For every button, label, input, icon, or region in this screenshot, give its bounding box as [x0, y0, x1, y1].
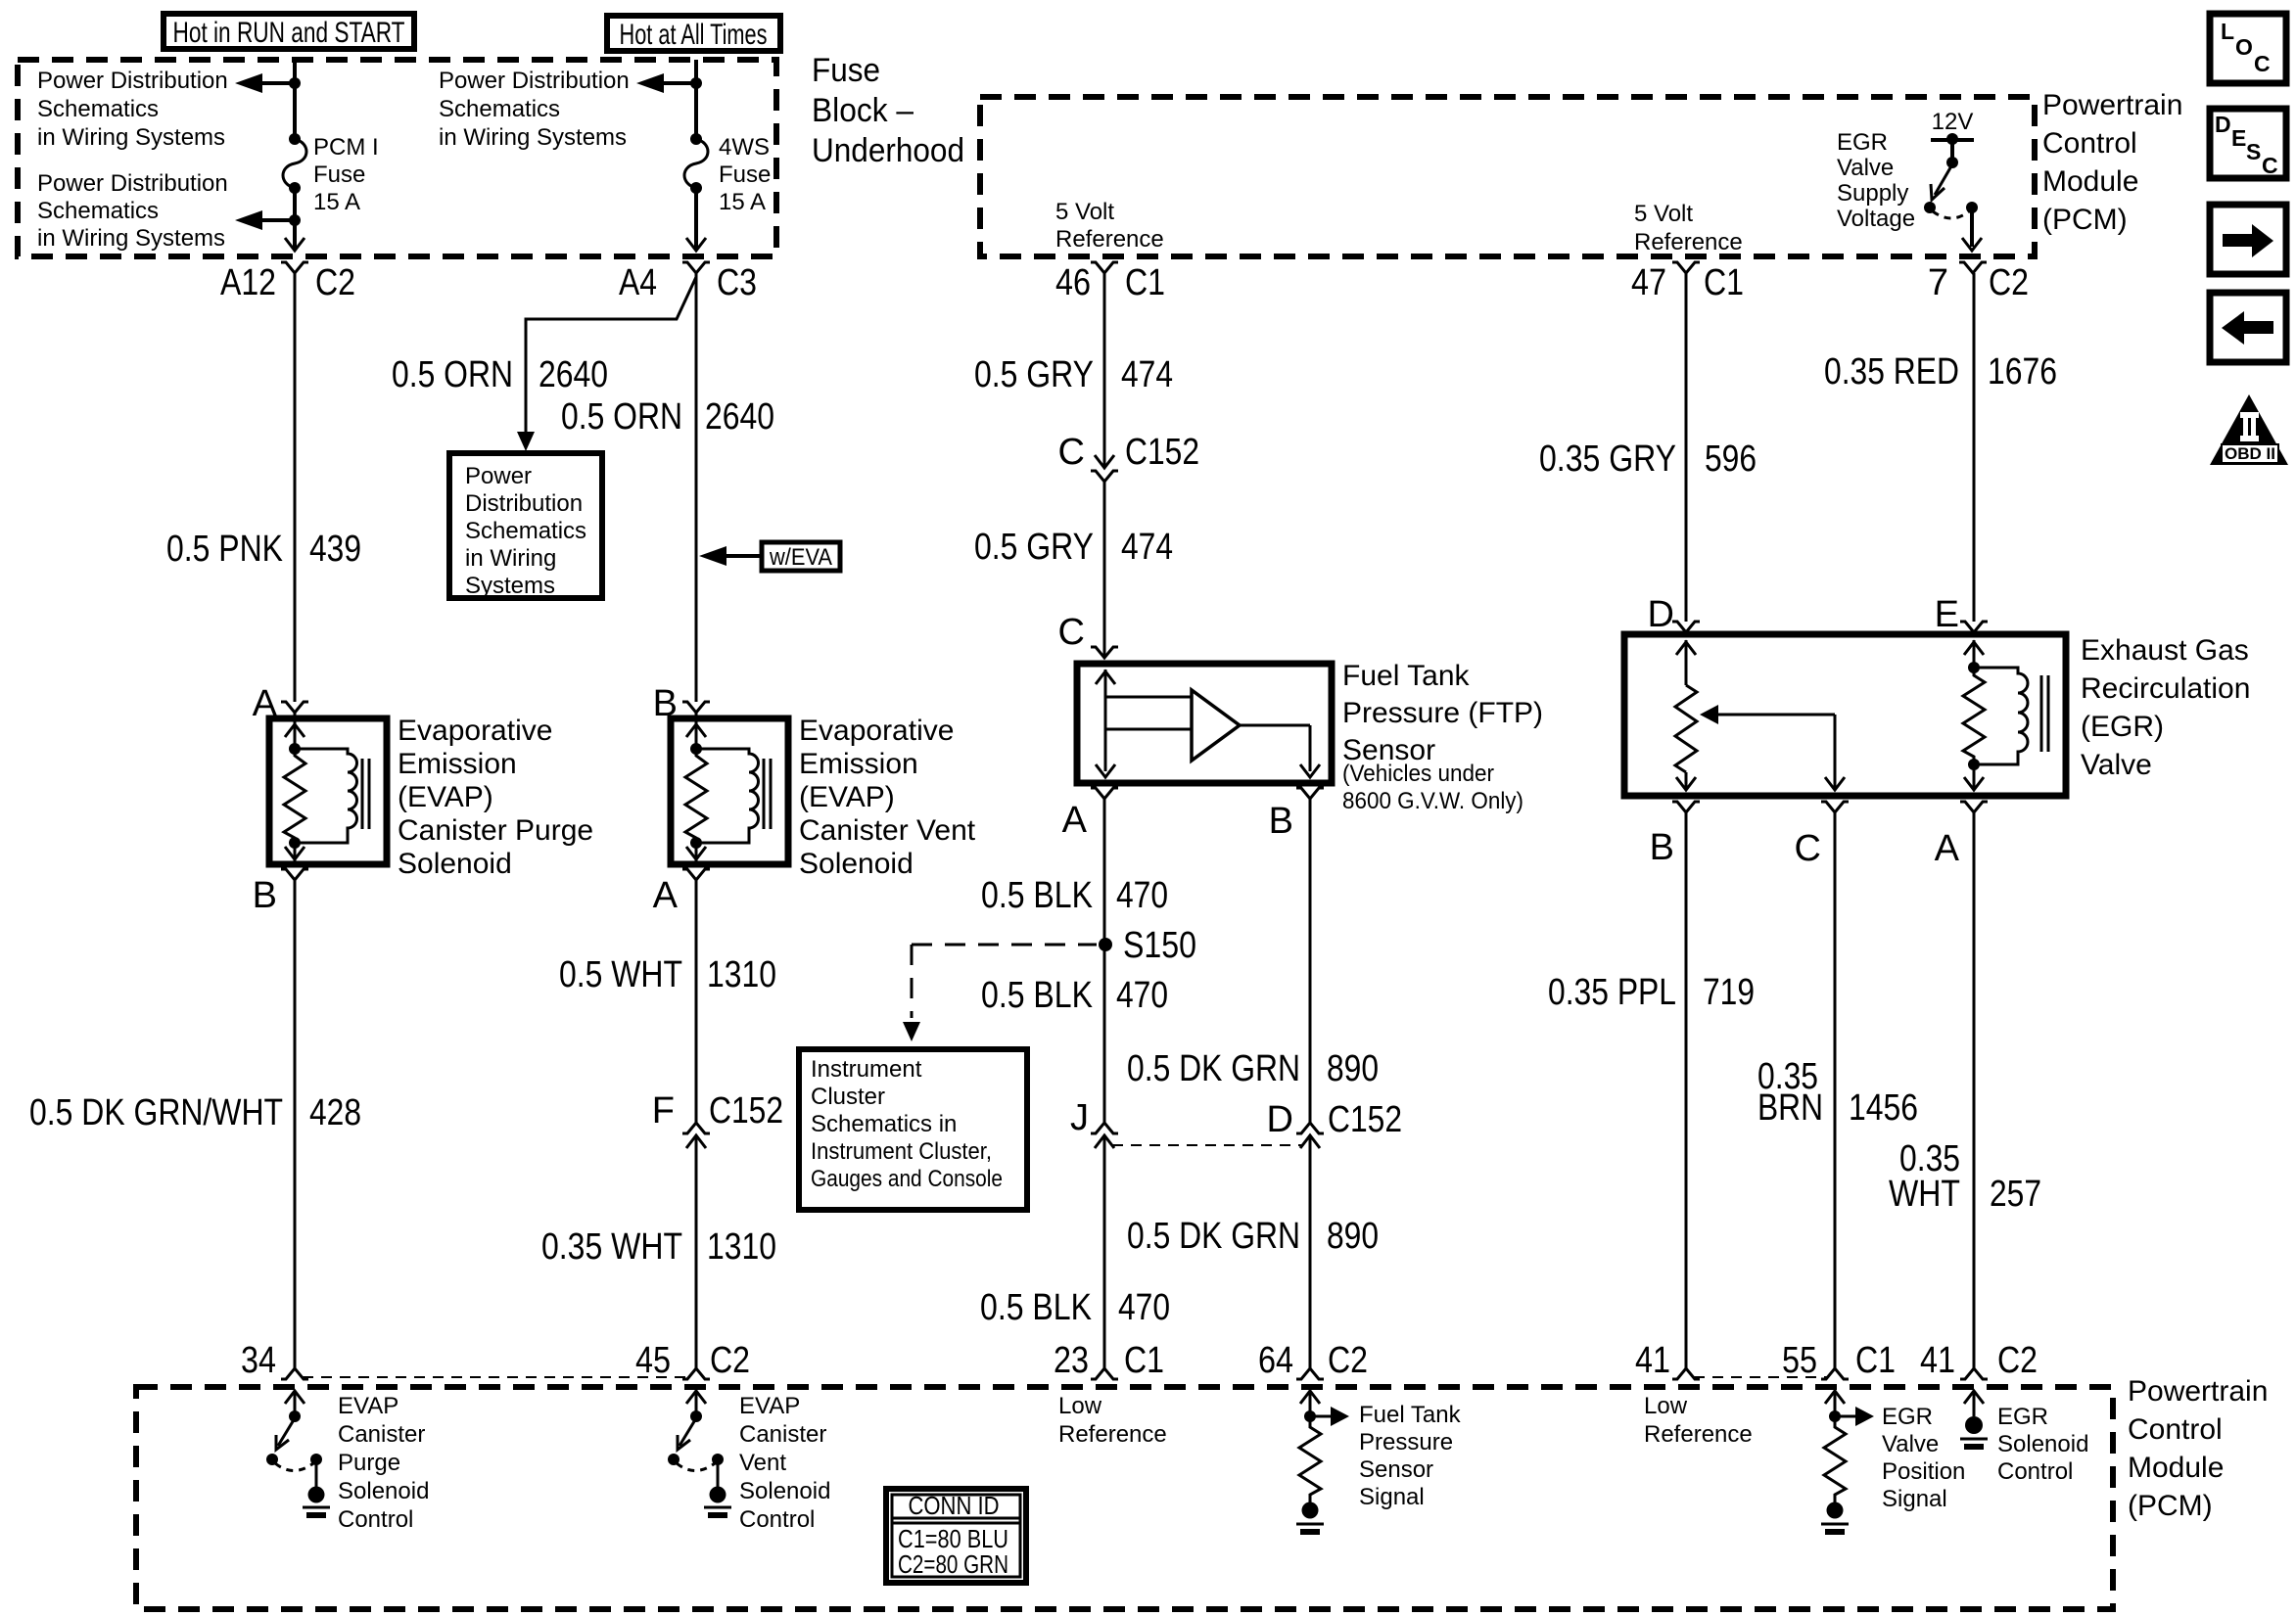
- PCM internal EVAP vent driver switch: [668, 1391, 731, 1515]
- label 0.5 ORN 2640 first: [392, 354, 608, 395]
- wire pin 7 stub with arrow: [1962, 208, 1982, 251]
- svg-text:Power DistributionSchematicsin: Power DistributionSchematicsin Wiring Sy…: [37, 170, 228, 252]
- arrow to power distribution right: [636, 73, 696, 93]
- connector pin A FTP: [1062, 788, 1118, 841]
- connector pin D EGR: [1648, 594, 1700, 635]
- svg-text:1310: 1310: [707, 954, 776, 995]
- inline connector C C152: [1058, 432, 1199, 482]
- svg-text:InstrumentClusterSchematics in: InstrumentClusterSchematics inInstrument…: [811, 1056, 1003, 1192]
- svg-text:0.5 DK GRN: 0.5 DK GRN: [1127, 1216, 1300, 1257]
- svg-text:41: 41: [1920, 1340, 1955, 1381]
- svg-text:(Vehicles under8600 G.V.W. Onl: (Vehicles under8600 G.V.W. Only): [1342, 761, 1523, 814]
- solenoid coil EGR: [1963, 640, 2048, 790]
- svg-text:FuseBlock –Underhood: FuseBlock –Underhood: [812, 52, 964, 169]
- label 0.5 GRY 474 second: [974, 527, 1173, 568]
- svg-text:7: 7: [1928, 262, 1948, 303]
- svg-text:PowertrainControlModule(PCM): PowertrainControlModule(PCM): [2128, 1375, 2268, 1522]
- svg-text:0.5 BLK: 0.5 BLK: [981, 975, 1093, 1016]
- wire 474 from C152 to FTP sensor: [1103, 482, 1106, 658]
- svg-text:Fuel TankPressureSensorSignal: Fuel TankPressureSensorSignal: [1359, 1402, 1462, 1510]
- svg-text:470: 470: [1116, 875, 1168, 916]
- connector pin B FTP: [1269, 788, 1324, 842]
- label 0.35 GRY 596: [1539, 439, 1757, 480]
- svg-text:41: 41: [1635, 1340, 1670, 1381]
- label 0.5 BLK 470 second: [981, 975, 1168, 1016]
- valve box EGR: [1624, 634, 2066, 796]
- inline connector J C152: [1070, 1097, 1118, 1148]
- svg-text:23: 23: [1054, 1340, 1089, 1381]
- dashed link 34 to 45: [303, 1376, 688, 1378]
- arrow to power distribution lower left: [235, 210, 295, 230]
- svg-text:470: 470: [1118, 1287, 1170, 1328]
- svg-text:WHT: WHT: [1889, 1174, 1960, 1215]
- svg-text:Exhaust GasRecirculation(EGR)V: Exhaust GasRecirculation(EGR)Valve: [2081, 634, 2250, 781]
- svg-text:A: A: [653, 875, 679, 916]
- svg-text:C2: C2: [1328, 1340, 1368, 1381]
- wire 470 from J to PCM pin 23: [1103, 1135, 1106, 1368]
- coil EVAP purge solenoid: [289, 743, 369, 849]
- icon OBD II triangle: [2210, 394, 2288, 465]
- wire 439 from A12 to EVAP purge solenoid: [294, 273, 297, 702]
- connector pin C FTP: [1058, 612, 1118, 658]
- connector pin A EGR: [1935, 802, 1988, 869]
- wire 1310 from vent A to C152: [695, 880, 698, 1123]
- PCM internal EGR valve position signal input: [1821, 1391, 1874, 1532]
- connector pin E EGR: [1935, 594, 1988, 635]
- svg-text:0.5 PNK: 0.5 PNK: [166, 529, 283, 570]
- connector pin 45 C2: [635, 1340, 750, 1381]
- svg-text:D: D: [1648, 594, 1674, 635]
- svg-text:w/EVA: w/EVA: [769, 544, 832, 571]
- splice S150: [1099, 925, 1196, 966]
- icon DESC box: [2210, 109, 2286, 178]
- svg-text:45: 45: [635, 1340, 671, 1381]
- svg-text:B: B: [1269, 801, 1293, 842]
- svg-text:C2: C2: [710, 1340, 750, 1381]
- wire 4WS fuse feed: [690, 60, 702, 137]
- svg-text:C152: C152: [1328, 1099, 1402, 1140]
- svg-text:PowertrainControlModule(PCM): PowertrainControlModule(PCM): [2042, 89, 2182, 236]
- svg-text:0.5 ORN: 0.5 ORN: [392, 354, 513, 395]
- box w/EVA: [762, 542, 840, 571]
- svg-text:C152: C152: [1125, 432, 1199, 473]
- label 0.5 WHT 1310: [559, 954, 776, 995]
- svg-text:C: C: [2262, 153, 2278, 178]
- svg-text:719: 719: [1703, 972, 1755, 1013]
- svg-text:PCM IFuse15 A: PCM IFuse15 A: [313, 134, 379, 215]
- label 0.35 PPL 719: [1548, 972, 1755, 1013]
- svg-text:A: A: [1062, 800, 1088, 841]
- wire PCM I fuse feed: [289, 60, 301, 226]
- svg-text:5 VoltReference: 5 VoltReference: [1634, 201, 1743, 255]
- label 0.35 WHT 257: [1889, 1138, 2041, 1215]
- resistor EVAP vent solenoid: [685, 749, 707, 843]
- connector pin C EGR: [1795, 802, 1849, 869]
- wire 470 from FTP A down: [1103, 799, 1106, 1123]
- connector pin 41 left: [1635, 1340, 1700, 1381]
- label 0.35 WHT 1310: [541, 1226, 776, 1268]
- svg-text:C2=80 GRN: C2=80 GRN: [898, 1549, 1008, 1579]
- svg-text:0.5 DK GRN/WHT: 0.5 DK GRN/WHT: [29, 1092, 283, 1133]
- connector pin A vent: [653, 869, 710, 916]
- svg-text:C2: C2: [315, 262, 355, 303]
- wire 2640 from A4 to EVAP vent solenoid: [695, 273, 698, 702]
- svg-text:55: 55: [1782, 1340, 1817, 1381]
- label 0.5 ORN 2640 second: [561, 396, 774, 438]
- label 0.5 DK GRN/WHT 428: [29, 1092, 361, 1133]
- dashed link 41 to 55: [1694, 1376, 1827, 1378]
- switch EGR supply inside PCM: [1924, 133, 1978, 218]
- wire 596 from 47 C1 to EGR D: [1685, 273, 1688, 622]
- box power distribution schematics in wiring systems: [449, 453, 602, 598]
- svg-text:439: 439: [309, 529, 361, 570]
- PCM internal fuel tank pressure signal input: [1296, 1391, 1349, 1532]
- svg-text:LowReference: LowReference: [1058, 1393, 1167, 1448]
- title box Hot in RUN and START: [164, 14, 414, 49]
- connector pin 46 C1: [1055, 262, 1165, 303]
- svg-text:2640: 2640: [539, 354, 608, 395]
- svg-text:34: 34: [241, 1340, 276, 1381]
- svg-text:596: 596: [1705, 439, 1757, 480]
- svg-text:B: B: [253, 875, 277, 916]
- svg-text:12V: 12V: [1932, 109, 1974, 135]
- wire 257 from EGR A to PCM pin 41 C2: [1973, 812, 1976, 1368]
- title box Hot at All Times: [607, 16, 780, 51]
- svg-text:0.5 ORN: 0.5 ORN: [561, 396, 682, 438]
- wire 474 from 46 C1 down to C152: [1103, 273, 1106, 466]
- svg-text:0.35 WHT: 0.35 WHT: [541, 1226, 682, 1268]
- svg-text:B: B: [1650, 827, 1674, 868]
- potentiometer EGR position sensor: [1675, 640, 1697, 790]
- svg-text:0.5 DK GRN: 0.5 DK GRN: [1127, 1048, 1300, 1089]
- svg-text:Fuel TankPressure (FTP)Sensor: Fuel TankPressure (FTP)Sensor: [1342, 660, 1543, 766]
- svg-text:Hot at All Times: Hot at All Times: [620, 19, 768, 51]
- svg-text:EVAPCanisterPurgeSolenoidContr: EVAPCanisterPurgeSolenoidControl: [338, 1393, 429, 1533]
- svg-text:474: 474: [1121, 527, 1173, 568]
- svg-text:O: O: [2235, 34, 2253, 60]
- icon left arrow box: [2210, 293, 2286, 362]
- svg-text:4WSFuse15 A: 4WSFuse15 A: [719, 134, 771, 215]
- PCM internal EGR solenoid control driver: [1960, 1391, 1988, 1447]
- svg-text:S: S: [2246, 139, 2261, 164]
- box instrument cluster schematics: [799, 1049, 1027, 1210]
- connector pin B purge: [253, 869, 308, 916]
- svg-text:Hot in RUN and START: Hot in RUN and START: [173, 17, 405, 49]
- coil EVAP vent solenoid: [690, 743, 771, 849]
- connector pin 7 C2: [1928, 262, 2029, 303]
- svg-text:C: C: [1058, 612, 1085, 653]
- svg-text:EGRValveSupplyVoltage: EGRValveSupplyVoltage: [1837, 129, 1915, 232]
- sensor box fuel tank pressure: [1077, 664, 1332, 783]
- svg-text:D: D: [2215, 112, 2231, 137]
- label 0.35 RED 1676: [1824, 351, 2057, 393]
- svg-text:470: 470: [1116, 975, 1168, 1016]
- svg-text:Power DistributionSchematicsin: Power DistributionSchematicsin Wiring Sy…: [37, 68, 228, 151]
- svg-text:C1: C1: [1704, 262, 1744, 303]
- wiper arm EGR: [1700, 705, 1845, 790]
- svg-text:EvaporativeEmission(EVAP)Canis: EvaporativeEmission(EVAP)Canister PurgeS…: [398, 715, 593, 880]
- icon LOC box: [2210, 14, 2286, 83]
- label 0.5 DK GRN 890 second: [1127, 1216, 1379, 1257]
- svg-text:2640: 2640: [705, 396, 774, 438]
- svg-text:S150: S150: [1123, 925, 1196, 966]
- fuse PCM I 15A: [283, 133, 306, 194]
- wire fuse output A4 with arrow: [686, 188, 706, 251]
- svg-text:E: E: [2231, 125, 2246, 151]
- svg-text:64: 64: [1258, 1340, 1293, 1381]
- svg-text:PowerDistributionSchematicsin: PowerDistributionSchematicsin WiringSyst…: [465, 463, 586, 599]
- svg-text:5 VoltReference: 5 VoltReference: [1055, 199, 1164, 253]
- wire pin B inside vent box: [686, 713, 706, 749]
- svg-text:1456: 1456: [1849, 1087, 1918, 1129]
- connector pin A4 C3: [619, 262, 757, 303]
- svg-text:D: D: [1267, 1099, 1293, 1140]
- PCM internal EVAP purge driver switch: [266, 1391, 330, 1515]
- dashed link J to D: [1112, 1144, 1302, 1146]
- table CONN ID: [886, 1489, 1026, 1583]
- svg-text:EvaporativeEmission(EVAP)Canis: EvaporativeEmission(EVAP)Canister VentSo…: [799, 715, 976, 880]
- connector pin 55 C1: [1782, 1340, 1896, 1381]
- wire 1310 from C152 to PCM pin 45: [695, 1135, 698, 1368]
- arrow into power distribution box: [517, 432, 535, 451]
- svg-text:F: F: [652, 1090, 675, 1132]
- svg-text:EVAPCanisterVentSolenoidContro: EVAPCanisterVentSolenoidControl: [739, 1393, 830, 1533]
- connector pin B EGR: [1650, 802, 1700, 868]
- dashed leader to instrument cluster box: [903, 945, 1097, 1041]
- wire 1676 from 7 C2 to EGR E: [1973, 273, 1976, 622]
- svg-text:OBD II: OBD II: [2225, 444, 2275, 463]
- connector pin B vent: [653, 683, 710, 724]
- connector pin 47 C1: [1631, 262, 1744, 303]
- solenoid box EVAP canister purge: [269, 718, 387, 864]
- svg-text:1676: 1676: [1988, 351, 2057, 393]
- connector pin A purge: [253, 683, 308, 724]
- inline connector F C152: [652, 1090, 783, 1148]
- svg-text:47: 47: [1631, 262, 1666, 303]
- solenoid box EVAP canister vent: [671, 718, 788, 864]
- connector pin 34: [241, 1340, 308, 1381]
- svg-text:L: L: [2221, 19, 2234, 44]
- svg-text:C2: C2: [1989, 262, 2029, 303]
- svg-text:C152: C152: [709, 1090, 783, 1132]
- resistor EVAP purge solenoid: [284, 749, 305, 843]
- svg-text:C1: C1: [1124, 1340, 1164, 1381]
- svg-text:LowReference: LowReference: [1644, 1393, 1753, 1448]
- svg-text:A4: A4: [619, 262, 657, 303]
- svg-text:890: 890: [1327, 1048, 1379, 1089]
- svg-text:BRN: BRN: [1757, 1087, 1823, 1129]
- svg-text:0.5 GRY: 0.5 GRY: [974, 354, 1094, 395]
- svg-text:0.35 PPL: 0.35 PPL: [1548, 972, 1676, 1013]
- svg-text:257: 257: [1990, 1174, 2041, 1215]
- svg-text:E: E: [1935, 594, 1959, 635]
- connector pin A12 C2: [220, 262, 355, 303]
- wire fuse output A12 with arrow: [285, 188, 305, 251]
- fuse block underhood dashed box: [18, 60, 776, 256]
- svg-text:0.5 BLK: 0.5 BLK: [981, 875, 1093, 916]
- svg-text:0.5 BLK: 0.5 BLK: [980, 1287, 1092, 1328]
- wire 1456 from EGR C to PCM pin 55: [1834, 812, 1837, 1368]
- svg-text:C1: C1: [1855, 1340, 1896, 1381]
- wire pin A inside purge box: [285, 713, 305, 749]
- svg-text:1310: 1310: [707, 1226, 776, 1268]
- connector pin 23 C1: [1054, 1340, 1164, 1381]
- inline connector D C152: [1267, 1099, 1402, 1148]
- svg-text:EGRSolenoidControl: EGRSolenoidControl: [1997, 1404, 2088, 1485]
- wire 890 from FTP B down: [1309, 799, 1312, 1123]
- wire ORN tap from A4 to power distribution: [526, 277, 696, 442]
- svg-text:CONN ID: CONN ID: [909, 1491, 1000, 1520]
- svg-text:0.35 GRY: 0.35 GRY: [1539, 439, 1676, 480]
- svg-text:J: J: [1070, 1097, 1089, 1138]
- connector pin 64 C2: [1258, 1340, 1368, 1381]
- svg-text:0.5 WHT: 0.5 WHT: [559, 954, 682, 995]
- svg-text:Power DistributionSchematicsin: Power DistributionSchematicsin Wiring Sy…: [439, 68, 630, 151]
- label 0.5 BLK 470 first: [981, 875, 1168, 916]
- label 0.5 PNK 439: [166, 529, 361, 570]
- icon right arrow box: [2210, 205, 2286, 274]
- FTP sensor internal circuit: [1096, 670, 1320, 777]
- svg-text:C: C: [1058, 432, 1085, 473]
- powertrain control module bottom dashed box: [136, 1387, 2113, 1609]
- arrow to power distribution upper left: [235, 73, 295, 93]
- svg-text:A12: A12: [220, 262, 276, 303]
- svg-text:46: 46: [1055, 262, 1091, 303]
- label 0.35 BRN 1456: [1757, 1056, 1918, 1129]
- wire pin A inside vent box: [686, 843, 706, 862]
- svg-text:C: C: [2254, 51, 2271, 76]
- wire 428 from purge B to PCM pin 34: [294, 880, 297, 1368]
- svg-text:0.35 RED: 0.35 RED: [1824, 351, 1959, 393]
- wire 719 from EGR B to PCM pin 41: [1685, 812, 1688, 1368]
- svg-text:C1: C1: [1125, 262, 1165, 303]
- svg-text:EGRValvePositionSignal: EGRValvePositionSignal: [1882, 1404, 1965, 1512]
- label 0.5 BLK 470 third: [980, 1287, 1170, 1328]
- svg-text:0.5 GRY: 0.5 GRY: [974, 527, 1094, 568]
- arrow w/EVA to wire: [699, 546, 762, 566]
- connector pin 41 C2: [1920, 1340, 2038, 1381]
- svg-text:C3: C3: [717, 262, 757, 303]
- powertrain control module top dashed box: [980, 97, 2035, 256]
- svg-text:A: A: [1935, 828, 1960, 869]
- svg-text:890: 890: [1327, 1216, 1379, 1257]
- wire pin B inside purge box: [285, 843, 305, 862]
- fuse 4WS 15A: [684, 133, 708, 194]
- svg-text:C2: C2: [1997, 1340, 2038, 1381]
- svg-text:474: 474: [1121, 354, 1173, 395]
- wire 890 from D to PCM pin 64: [1309, 1135, 1312, 1368]
- label 0.5 DK GRN 890 first: [1127, 1048, 1379, 1089]
- svg-text:428: 428: [309, 1092, 361, 1133]
- label 0.5 GRY 474 first: [974, 354, 1173, 395]
- svg-text:C: C: [1795, 828, 1821, 869]
